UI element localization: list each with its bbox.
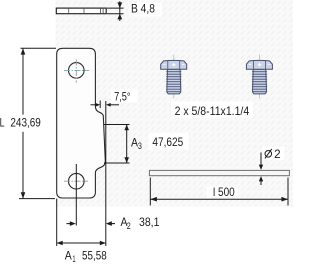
rod side view: [149, 170, 289, 175]
svg-text:3: 3: [138, 141, 142, 152]
dimension L bottom arrow: [21, 192, 26, 198]
svg-text:A: A: [65, 249, 72, 263]
svg-text:55,58: 55,58: [82, 249, 107, 263]
dimension B lower arrow: [117, 14, 122, 20]
label L 243,69: [0, 115, 47, 132]
top hole vertical centerline: [75, 60, 77, 83]
svg-text:2: 2: [274, 147, 281, 161]
svg-text:38,1: 38,1: [139, 215, 160, 229]
diameter dimension leader and arrows: [259, 153, 263, 186]
svg-text:l 500: l 500: [213, 185, 235, 199]
dimension A1: extension line, dimension line and arrows: [57, 199, 106, 246]
dimension l 500: extension lines, dimension line and arrows: [150, 178, 288, 206]
plate edge (top) view bar: [56, 8, 106, 14]
label B 4,8: [129, 2, 162, 17]
dimension A3 top arrow: [124, 125, 129, 131]
svg-text:7,5°: 7,5°: [114, 90, 131, 104]
dimension A3: extension and dimension lines: [104, 125, 130, 164]
svg-text:47,625: 47,625: [152, 135, 183, 149]
dimension L: extension and dimension lines: [19, 48, 56, 198]
svg-text:243,69: 243,69: [10, 115, 41, 129]
label 7,5deg: [111, 90, 138, 104]
hex bolt 1: [161, 55, 187, 99]
svg-text:2: 2: [127, 221, 131, 232]
bottom hole horizontal centerline: [64, 180, 88, 182]
hatched drawing background region: [56, 0, 294, 207]
label A1 55,58: [65, 249, 107, 265]
dimension A2: centerline extension and outside arrows: [67, 164, 116, 226]
svg-text:B 4,8: B 4,8: [131, 2, 155, 16]
bottom bolt hole: [69, 173, 85, 189]
right extension line shared by angle, A2 and A1 dimensions: [105, 101, 107, 246]
dimension B: extension lines and dimension line: [107, 1, 124, 21]
svg-text:1: 1: [72, 254, 75, 265]
svg-text:L: L: [0, 115, 5, 129]
dimension B upper arrow: [117, 2, 122, 8]
locking plate front view outline: [57, 48, 106, 198]
top bolt hole: [69, 63, 85, 79]
dimension A3 bottom arrow: [124, 157, 129, 163]
angle dimension 7,5deg: reference line and arrows: [91, 101, 120, 109]
svg-text:2 x 5/8-11x1.1/4: 2 x 5/8-11x1.1/4: [175, 104, 250, 118]
top hole horizontal centerline: [64, 69, 89, 71]
label diameter 2: [263, 147, 285, 162]
label 2 x 5/8-11x1.1/4: [171, 102, 253, 119]
label A2 38,1: [121, 215, 160, 232]
hex bolt 2: [246, 55, 272, 99]
label l 500: [207, 185, 239, 199]
label A3 47,625: [131, 133, 189, 152]
dimension L top arrow: [21, 48, 26, 54]
